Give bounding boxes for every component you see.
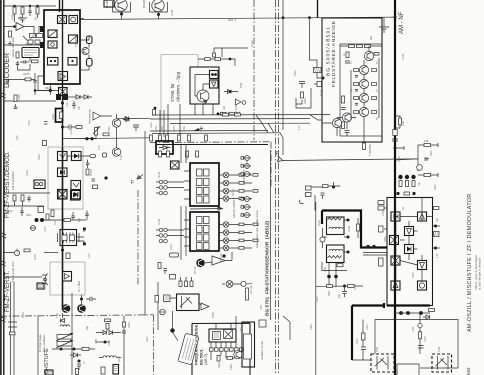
- wire spine to q7: [63, 305, 67, 309]
- svg-text:2.2n: 2.2n: [16, 135, 19, 140]
- sensor terminal squares: [241, 157, 244, 217]
- coil zigzag TA1: [328, 218, 342, 220]
- svg-text:12.3V: 12.3V: [171, 9, 174, 16]
- amp triangle QS: [201, 303, 209, 310]
- wire TA bottom: [322, 262, 347, 275]
- node dot rb: [343, 285, 346, 288]
- trimmer R42: [93, 127, 100, 139]
- tick pair 2: [2, 233, 6, 238]
- wire left amp: [8, 26, 30, 28]
- resistor R41: [76, 126, 82, 129]
- tick pair 4: [2, 317, 6, 322]
- transistor Q4 stab: [197, 90, 209, 103]
- svg-text:BF224: BF224: [90, 168, 93, 176]
- svg-text:R151: R151: [170, 244, 173, 250]
- hook j: [300, 200, 304, 204]
- svg-text:Abst. 4: Abst. 4: [228, 18, 237, 22]
- wire bottom center h: [316, 285, 363, 287]
- svg-text:TBA120: TBA120: [220, 253, 223, 262]
- amp triangle A2: [93, 112, 101, 120]
- center box frame top: [156, 144, 268, 146]
- wires u2 right: [219, 175, 252, 199]
- wire am internal: [400, 205, 422, 281]
- am right resistor: [434, 207, 440, 210]
- svg-text:19kHz: 19kHz: [23, 73, 31, 76]
- transistor Q14: [359, 107, 368, 116]
- terminal left lead: [314, 82, 322, 87]
- node dot row: [217, 112, 220, 115]
- resistor RL2: [21, 195, 24, 201]
- amp box A3: [63, 272, 72, 282]
- main FM spine: [62, 0, 64, 307]
- wire spine in shield: [62, 147, 64, 209]
- resistor right R34: [418, 173, 438, 177]
- zener right: [224, 90, 238, 94]
- am box9 tri: [391, 281, 400, 290]
- wire a4: [205, 252, 232, 263]
- wire top left: [8, 5, 56, 7]
- node dot d1: [85, 137, 88, 140]
- stab gray loop vertical: [160, 55, 162, 131]
- coil L10: [60, 325, 70, 327]
- resistor row r62: [166, 135, 169, 141]
- capacitor C3: [20, 60, 29, 63]
- resistor R59: [10, 332, 16, 335]
- capacitor C13: [86, 160, 89, 169]
- node dot Q3e: [157, 13, 160, 16]
- small parts upper inside: [345, 52, 379, 63]
- terminal sq2: [83, 243, 86, 246]
- resistor R7: [16, 52, 19, 58]
- capacitor above TA: [321, 193, 325, 199]
- resistor bus R30: [395, 116, 402, 128]
- wire y139 left: [63, 138, 97, 140]
- page edge strip: [0, 0, 2, 375]
- limiter box L2: [72, 152, 82, 161]
- svg-text:C412: C412: [366, 324, 369, 330]
- transistor Q11: [359, 65, 368, 74]
- res col right1: [239, 174, 244, 200]
- svg-text:FI401: FI401: [318, 219, 321, 226]
- coil loops TA1: [329, 227, 343, 229]
- small box pair B1: [30, 34, 43, 38]
- capacitor C6: [16, 61, 19, 67]
- svg-text:AM-ZF: AM-ZF: [232, 188, 235, 196]
- tick pair 1: [2, 93, 6, 98]
- node dot big: [40, 218, 44, 222]
- resistor R56: [106, 324, 109, 330]
- diode box L6: [71, 191, 81, 201]
- rounded box P2: [87, 59, 93, 67]
- resistor R54: [82, 348, 89, 351]
- wire am left entries: [363, 208, 387, 255]
- wire stab box drops: [195, 104, 213, 115]
- mixer box below: [59, 88, 68, 96]
- resistor left col R23: [342, 96, 345, 103]
- dash-dot boundary horizontal: [0, 315, 154, 316]
- freq pins row: [210, 348, 244, 351]
- wire stab feed: [214, 48, 248, 57]
- amp triangle left: [16, 23, 24, 31]
- wire ladder vertical: [351, 58, 379, 118]
- mixer box L5: [58, 190, 68, 200]
- node dot m1: [60, 348, 63, 351]
- svg-text:22p: 22p: [86, 325, 89, 330]
- resistor top R20: [349, 45, 355, 48]
- svg-text:5.6V: 5.6V: [240, 83, 243, 88]
- coil L11: [103, 356, 117, 358]
- node dot m2: [73, 348, 76, 351]
- svg-text:L401: L401: [324, 266, 327, 272]
- varactor col1 v1: [223, 172, 229, 178]
- tuner connector box: [314, 68, 322, 73]
- top row resistors above qs: [179, 281, 193, 287]
- demod box L4: [71, 181, 81, 190]
- long wire F to right: [283, 145, 418, 171]
- terminal top box: [104, 0, 114, 7]
- resistor R55: [76, 369, 79, 375]
- svg-text:C201: C201: [294, 70, 297, 76]
- freq box outline: [192, 323, 250, 375]
- trimmer RT1: [56, 333, 73, 341]
- wires left coils: [156, 182, 184, 236]
- component circle right: [417, 165, 423, 171]
- node dot spine2: [61, 126, 64, 129]
- diode box spine2: [72, 190, 81, 199]
- wire left rows: [4, 193, 51, 206]
- component on bus C31: [393, 130, 397, 136]
- triangle box: [210, 80, 219, 88]
- svg-text:C121: C121: [44, 226, 47, 232]
- resistor R43: [103, 133, 109, 136]
- wire between verticals: [181, 145, 186, 261]
- bracket Q2: [113, 1, 131, 12]
- transistor Q9 dark: [196, 259, 204, 267]
- svg-text:563: 563: [466, 367, 471, 375]
- resistor BR1: [419, 332, 422, 339]
- freq top wires: [216, 316, 236, 329]
- svg-text:470k: 470k: [12, 14, 15, 20]
- diode sym s3: [243, 172, 251, 177]
- terminal sq1: [83, 228, 86, 231]
- wire drops top: [15, 6, 38, 22]
- resistor R50: [64, 219, 71, 222]
- svg-text:oscillator coil unit: oscillator coil unit: [261, 341, 264, 360]
- diagonal wire bl: [283, 316, 290, 340]
- node dots q8 top: [80, 298, 83, 301]
- resistor row r61: [159, 135, 162, 141]
- wire y119: [150, 118, 310, 120]
- node dot bus top: [394, 16, 397, 19]
- wire shield right: [67, 155, 90, 157]
- terminal dots right: [347, 219, 350, 254]
- bus line 4 left: [63, 137, 153, 140]
- wire q1: [80, 36, 89, 70]
- svg-text:10k: 10k: [424, 139, 429, 143]
- resistor RB2: [348, 285, 355, 288]
- svg-text:68p: 68p: [78, 217, 81, 222]
- resistor R52: [66, 253, 70, 259]
- svg-text:AM osc. mixer, if, demodulator: AM osc. mixer, if, demodulator: [474, 255, 478, 290]
- resistor RS13: [221, 112, 227, 115]
- transformer box TA2: [327, 245, 345, 263]
- transistor Q16: [332, 118, 341, 127]
- resistor R2: [13, 7, 16, 14]
- wire jrow: [395, 312, 430, 314]
- resistor RF1: [217, 356, 220, 362]
- wire top inside: [340, 46, 382, 107]
- wire am top exits: [396, 198, 423, 213]
- dash-dot left boundary: [137, 190, 139, 285]
- resistor row r60: [150, 135, 153, 141]
- resistor inner bottom: [342, 122, 345, 129]
- svg-text:R414: R414: [356, 338, 359, 344]
- u2 row3: [197, 188, 210, 195]
- varactor col1 v2: [223, 180, 229, 186]
- diode D3: [80, 95, 92, 99]
- svg-text:10.7: 10.7: [88, 253, 91, 258]
- svg-text:L104: L104: [95, 338, 98, 344]
- node dot right1: [104, 176, 107, 179]
- resistor RL1: [13, 195, 16, 201]
- resistor RS12 vertical: [213, 53, 216, 57]
- svg-text:C407: C407: [412, 272, 415, 278]
- thick drop left: [351, 306, 353, 361]
- right cluster: diode D8: [100, 330, 107, 334]
- resistor below box: [363, 143, 366, 150]
- dots left entries: [366, 245, 375, 248]
- am box5 sym: [405, 245, 414, 254]
- resistor RF2: [227, 357, 233, 360]
- stab main box: [190, 67, 219, 104]
- junction dot l2: [34, 89, 37, 92]
- tick marks left edge: [4, 6, 9, 45]
- left comps c22: [8, 322, 17, 327]
- capacitor C23: [164, 269, 168, 275]
- switch box S1: [48, 58, 59, 66]
- capacitor C15: [14, 104, 17, 109]
- resistor row r63: [178, 135, 181, 141]
- small box left2: [38, 207, 44, 213]
- diode left bus: [122, 117, 132, 121]
- wire mid left: [30, 27, 44, 34]
- big box bottom right: [375, 320, 458, 369]
- svg-text:C401: C401: [382, 210, 385, 216]
- node dot t3: [61, 249, 64, 252]
- node dot stab top: [229, 58, 232, 61]
- resistor row r65: [205, 135, 208, 141]
- dash-dot boundary vertical: [153, 315, 155, 375]
- capacitor C10: [72, 101, 75, 109]
- svg-text:AM - NF: AM - NF: [399, 11, 405, 34]
- coil box left: [34, 180, 45, 189]
- stab gray loop horizontal: [161, 55, 198, 67]
- u3 row2: [197, 226, 210, 233]
- diode sym s5: [243, 205, 251, 210]
- diode pair right: [425, 157, 429, 161]
- svg-text:1.2k: 1.2k: [401, 120, 405, 126]
- capacitor C20: [86, 297, 96, 301]
- svg-text:freq. multiplier: freq. multiplier: [42, 335, 46, 352]
- coil zigzag TA2: [328, 256, 342, 258]
- left column tick: [44, 122, 48, 125]
- svg-text:BG 5005/AB591: BG 5005/AB591: [326, 26, 332, 76]
- wire pll bottom: [18, 58, 31, 71]
- diode pair box: [210, 71, 219, 79]
- varactor col1 v4: [223, 196, 229, 202]
- svg-text:T402: T402: [438, 346, 441, 352]
- svg-text:R412: R412: [316, 296, 319, 302]
- u3 row4: [197, 243, 210, 250]
- small box bottom u3: [170, 275, 176, 280]
- svg-text:C517: C517: [146, 336, 149, 342]
- freq ic inner left: [213, 332, 221, 340]
- right bus AM-NF: [394, 0, 396, 375]
- inner box: [244, 334, 252, 359]
- svg-text:Tuner: Tuner: [320, 90, 323, 96]
- transistor Q12: [359, 79, 368, 88]
- small comps above TA: [306, 186, 312, 197]
- resistor on bus1 a: [223, 113, 229, 116]
- resistor top d: [196, 151, 199, 157]
- thick bottom bus: [352, 303, 430, 308]
- top wire to bus: [384, 16, 395, 18]
- svg-text:R521: R521: [328, 290, 331, 296]
- thick wire top: [322, 211, 387, 248]
- amp triangle A1: [58, 72, 68, 81]
- svg-text:10u: 10u: [418, 181, 421, 186]
- svg-text:T101: T101: [56, 312, 59, 318]
- wire coil l11: [99, 357, 121, 359]
- circle comp left: [14, 250, 19, 255]
- node dot qs: [170, 328, 174, 332]
- resistor row r64: [188, 135, 191, 141]
- varactor col2 v2: [223, 230, 229, 236]
- resistor R8: [25, 78, 31, 81]
- svg-text:82p: 82p: [338, 293, 341, 298]
- shield box 1: [48, 147, 83, 209]
- dashdot left top: [253, 0, 255, 140]
- varactor col1 v3: [223, 188, 229, 194]
- wire qs: [170, 298, 201, 328]
- bracket Q3: [150, 2, 168, 12]
- resistor JR1: [429, 309, 435, 312]
- svg-text:FI103: FI103: [158, 218, 161, 225]
- circle node br: [418, 323, 422, 327]
- transistor Q13: [359, 93, 368, 102]
- junction dot line283: [282, 16, 285, 19]
- tick pair 3: [2, 261, 6, 266]
- node dots bus mid: [394, 147, 397, 150]
- wire bottom center v: [315, 202, 317, 375]
- terminal dot TA b1: [327, 275, 331, 279]
- resistor R47: [14, 95, 17, 102]
- am left small box b: [379, 226, 384, 232]
- junction dot l1: [13, 25, 16, 28]
- resistor above TA: [323, 185, 329, 188]
- filter box F2: [69, 35, 78, 43]
- small circle top2: [241, 281, 246, 286]
- svg-text:S041P: S041P: [186, 152, 189, 160]
- u3 row1: [197, 217, 210, 224]
- phase det box: [48, 41, 57, 48]
- svg-text:R502: R502: [218, 362, 221, 368]
- switch box S2: [68, 58, 77, 66]
- diode sym s1: [243, 156, 251, 161]
- resistor R6: [9, 31, 12, 37]
- svg-text:R120: R120: [18, 94, 21, 100]
- resistor R40 inner: [60, 112, 63, 119]
- svg-text:AM-OSZILL / MISCHSTUFE I ZF I: AM-OSZILL / MISCHSTUFE I ZF I DEMODULATO…: [467, 193, 473, 332]
- svg-text:R516: R516: [128, 322, 131, 328]
- svg-text:F: F: [131, 180, 134, 186]
- wire y118: [117, 117, 151, 119]
- resistor R66: [170, 253, 179, 257]
- svg-text:C138: C138: [200, 126, 203, 132]
- am box2 delta: [418, 212, 427, 221]
- bottom box left outline: [242, 322, 255, 367]
- wire t3 stubs: [77, 228, 85, 244]
- svg-text:C122: C122: [28, 120, 31, 126]
- demod box L3: [58, 168, 68, 177]
- coil loops TA2: [329, 249, 343, 251]
- bus line 2: [170, 122, 310, 124]
- svg-text:560: 560: [370, 35, 373, 40]
- label box small: [259, 320, 266, 327]
- dash-dot shield center top: [150, 141, 271, 144]
- capacitor marks between rows: [355, 76, 358, 106]
- arrow between ICs: [190, 207, 223, 210]
- resistor right of TA: [357, 218, 360, 238]
- bus line 1: [152, 114, 330, 116]
- svg-text:1N4148: 1N4148: [246, 159, 249, 168]
- junction stub: [395, 146, 404, 150]
- freq wires pins: [211, 342, 236, 348]
- svg-text:4.7k: 4.7k: [436, 253, 439, 258]
- resistor RTA: [337, 264, 343, 267]
- wire q5q6: [101, 114, 117, 148]
- wire left row: [4, 100, 57, 102]
- svg-text:T401: T401: [376, 346, 379, 352]
- coil rows left2: [159, 228, 167, 243]
- bus line 3b: [150, 129, 268, 132]
- limiter box L1: [58, 152, 68, 161]
- resistor R40 thick box: [56, 109, 63, 123]
- svg-text:10.7 MHz: 10.7 MHz: [77, 280, 81, 292]
- am right stub1: [427, 217, 441, 227]
- transistor Q2 top: [115, 0, 127, 11]
- wire q8 drop: [72, 293, 82, 375]
- small circle comp left: [30, 226, 36, 231]
- resistor R58: [101, 367, 105, 374]
- left col capacitor: [361, 347, 366, 350]
- svg-text:C410: C410: [354, 284, 357, 290]
- wire bend low: [296, 100, 302, 104]
- resistor RS14: [229, 112, 235, 115]
- svg-text:IC501: IC501: [212, 311, 215, 318]
- IC block U2: [190, 163, 219, 206]
- vco box: [69, 16, 78, 24]
- svg-text:FI102: FI102: [158, 171, 161, 178]
- transformer core T2: [56, 94, 68, 100]
- svg-text:Abstimm. - Spg: Abstimm. - Spg: [176, 71, 181, 102]
- svg-text:osc coil: osc coil: [250, 286, 253, 294]
- wire y349: [52, 348, 95, 350]
- comps left stab: [153, 107, 157, 115]
- wire bottom exits: [363, 117, 365, 147]
- rounded box P1: [87, 36, 93, 44]
- svg-text:DECODER: DECODER: [4, 53, 11, 88]
